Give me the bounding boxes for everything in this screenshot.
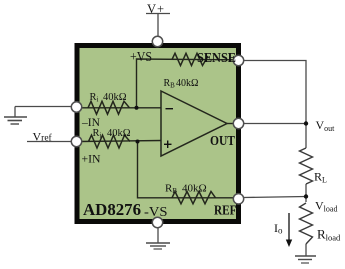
svg-text:-VS: -VS [144,205,168,220]
svg-text:40kΩ: 40kΩ [176,78,198,89]
svg-text:40kΩ: 40kΩ [103,92,127,103]
svg-text:40kΩ: 40kΩ [182,183,207,195]
svg-text:V+: V+ [147,2,164,16]
svg-text:REF: REF [214,204,237,219]
svg-text:AD8276: AD8276 [83,200,141,219]
svg-text:SENSE: SENSE [197,51,236,66]
svg-text:40kΩ: 40kΩ [107,128,131,139]
svg-text:OUT: OUT [210,134,236,149]
svg-text:+VS: +VS [130,50,152,65]
svg-text:+IN: +IN [82,152,101,166]
svg-text:–IN: –IN [81,115,100,129]
